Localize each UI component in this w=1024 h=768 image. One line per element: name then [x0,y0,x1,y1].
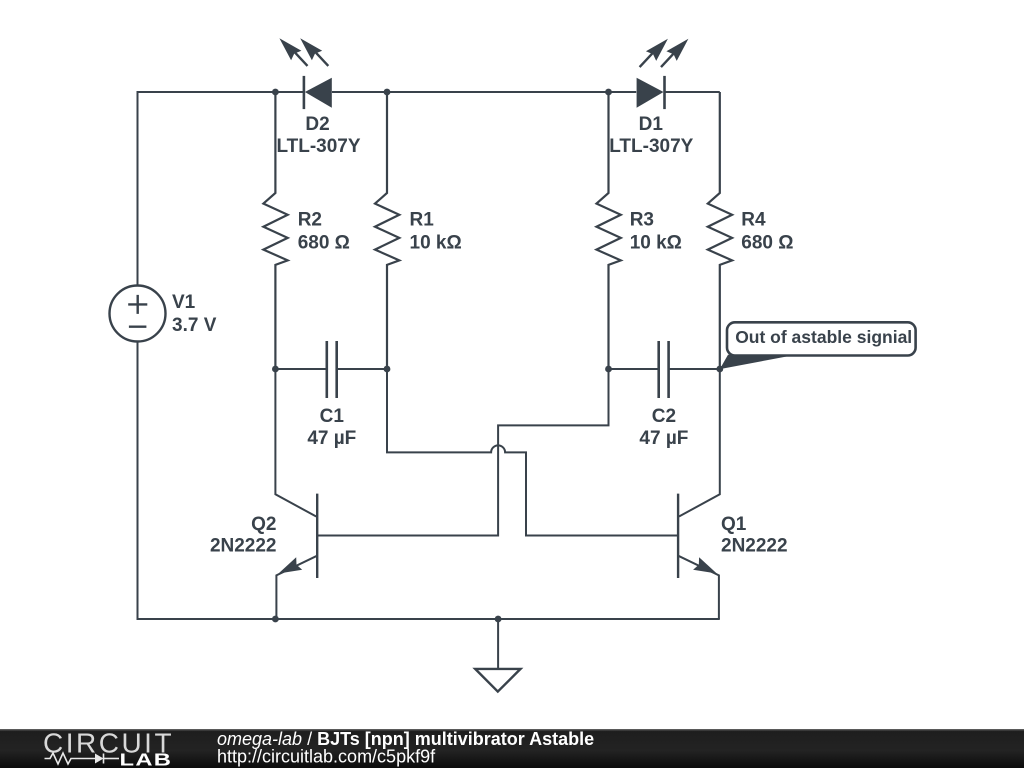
svg-text:Q2: Q2 [251,514,276,535]
svg-text:Out of astable signial: Out of astable signial [735,327,912,347]
svg-text:47 µF: 47 µF [307,428,356,449]
svg-text:D2: D2 [305,114,329,135]
svg-text:V1: V1 [172,292,196,313]
svg-text:R1: R1 [410,210,435,231]
svg-text:LAB: LAB [120,750,173,768]
svg-text:R2: R2 [298,210,322,231]
svg-text:10 kΩ: 10 kΩ [630,233,682,254]
svg-text:3.7 V: 3.7 V [172,315,217,336]
svg-text:2N2222: 2N2222 [210,536,277,557]
svg-text:R4: R4 [741,210,766,231]
svg-text:680 Ω: 680 Ω [298,233,350,254]
svg-text:680 Ω: 680 Ω [741,233,793,254]
svg-text:LTL-307Y: LTL-307Y [609,136,693,157]
svg-text:http://circuitlab.com/c5pkf9f: http://circuitlab.com/c5pkf9f [217,747,436,767]
svg-text:R3: R3 [630,210,654,231]
svg-text:2N2222: 2N2222 [721,536,788,557]
svg-text:10 kΩ: 10 kΩ [410,233,462,254]
svg-text:C2: C2 [652,406,676,427]
svg-text:47 µF: 47 µF [639,428,688,449]
svg-text:C1: C1 [320,406,345,427]
svg-text:LTL-307Y: LTL-307Y [276,136,360,157]
svg-text:D1: D1 [639,114,664,135]
svg-text:Q1: Q1 [721,514,747,535]
